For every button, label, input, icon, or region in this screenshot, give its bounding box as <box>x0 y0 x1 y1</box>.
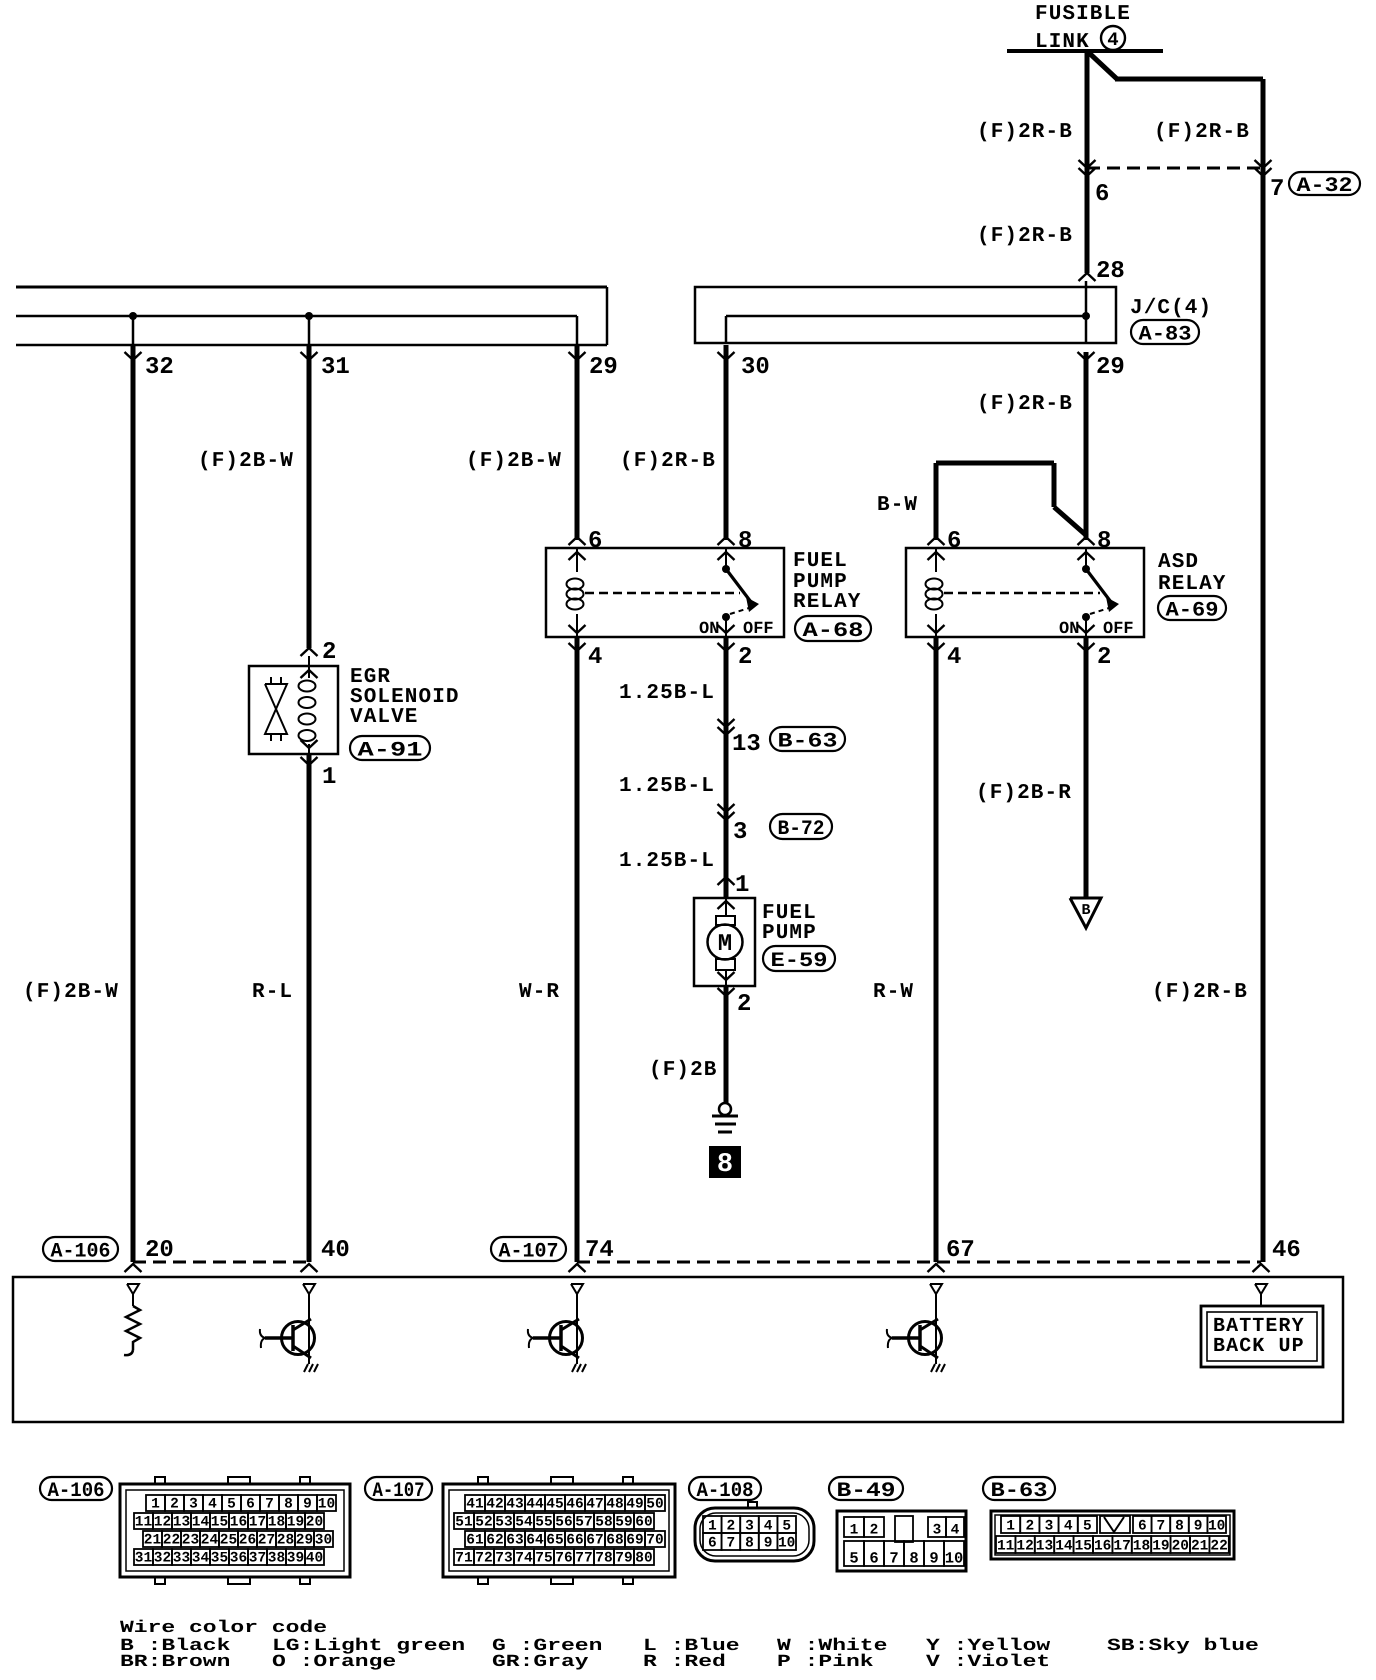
svg-text:53: 53 <box>495 1515 512 1531</box>
svg-text:4: 4 <box>208 1497 217 1513</box>
svg-text:59: 59 <box>615 1515 632 1531</box>
svg-text:P :Pink: P :Pink <box>777 1653 874 1672</box>
svg-text:80: 80 <box>635 1551 652 1567</box>
svg-text:42: 42 <box>486 1497 503 1513</box>
svg-text:3: 3 <box>745 1519 754 1535</box>
svg-text:31: 31 <box>321 354 350 381</box>
svg-text:(F)2B-W: (F)2B-W <box>198 450 294 473</box>
svg-text:61: 61 <box>466 1533 484 1549</box>
svg-text:E-59: E-59 <box>771 950 828 973</box>
svg-text:15: 15 <box>211 1515 228 1531</box>
svg-text:6: 6 <box>869 1550 878 1568</box>
svg-text:A-69: A-69 <box>1166 599 1219 622</box>
svg-text:25: 25 <box>220 1533 237 1549</box>
svg-text:58: 58 <box>595 1515 612 1531</box>
svg-text:64: 64 <box>526 1533 544 1549</box>
svg-text:2: 2 <box>737 991 751 1018</box>
svg-text:10: 10 <box>318 1497 335 1513</box>
svg-text:35: 35 <box>211 1551 228 1567</box>
svg-text:7: 7 <box>889 1550 898 1568</box>
svg-text:31: 31 <box>135 1551 153 1567</box>
svg-text:5: 5 <box>1083 1519 1092 1535</box>
svg-text:14: 14 <box>1055 1539 1073 1555</box>
svg-text:74: 74 <box>585 1237 614 1264</box>
svg-text:1: 1 <box>151 1497 160 1513</box>
svg-text:5: 5 <box>849 1550 858 1568</box>
svg-text:6: 6 <box>1095 181 1109 208</box>
svg-text:54: 54 <box>515 1515 533 1531</box>
svg-text:R-W: R-W <box>873 981 914 1004</box>
svg-text:7: 7 <box>265 1497 274 1513</box>
svg-text:4: 4 <box>764 1519 773 1535</box>
svg-text:Wire color code: Wire color code <box>120 1619 327 1638</box>
svg-text:A-107: A-107 <box>499 1240 559 1263</box>
svg-text:72: 72 <box>475 1551 492 1567</box>
svg-text:A-106: A-106 <box>51 1240 111 1263</box>
svg-text:(F)2B-W: (F)2B-W <box>23 981 119 1004</box>
svg-text:70: 70 <box>646 1533 663 1549</box>
svg-text:8: 8 <box>1097 528 1111 555</box>
svg-text:B-72: B-72 <box>778 818 825 841</box>
svg-text:38: 38 <box>268 1551 285 1567</box>
svg-text:14: 14 <box>192 1515 210 1531</box>
svg-text:19: 19 <box>287 1515 304 1531</box>
svg-text:ON: ON <box>699 620 719 639</box>
svg-text:56: 56 <box>555 1515 572 1531</box>
svg-text:34: 34 <box>192 1551 210 1567</box>
svg-text:12: 12 <box>154 1515 171 1531</box>
svg-text:4: 4 <box>947 644 961 671</box>
svg-text:40: 40 <box>306 1551 323 1567</box>
svg-text:SB:Sky blue: SB:Sky blue <box>1107 1637 1259 1656</box>
svg-text:A-68: A-68 <box>803 620 864 643</box>
svg-text:78: 78 <box>595 1551 612 1567</box>
svg-text:16: 16 <box>230 1515 247 1531</box>
svg-text:2: 2 <box>1097 644 1111 671</box>
svg-text:55: 55 <box>535 1515 552 1531</box>
svg-text:(F)2R-B: (F)2R-B <box>977 225 1073 248</box>
svg-text:(F)2R-B: (F)2R-B <box>977 121 1073 144</box>
svg-text:18: 18 <box>268 1515 285 1531</box>
svg-text:46: 46 <box>566 1497 583 1513</box>
svg-text:A-91: A-91 <box>358 739 423 762</box>
svg-text:10: 10 <box>1208 1519 1225 1535</box>
svg-text:65: 65 <box>546 1533 563 1549</box>
svg-text:12: 12 <box>1016 1539 1033 1555</box>
svg-text:(F)2B-W: (F)2B-W <box>466 450 562 473</box>
svg-text:29: 29 <box>1096 354 1125 381</box>
svg-text:69: 69 <box>626 1533 643 1549</box>
svg-text:ASD: ASD <box>1158 551 1199 574</box>
svg-text:R :Red: R :Red <box>643 1653 726 1672</box>
svg-text:4: 4 <box>588 644 602 671</box>
svg-text:B-63: B-63 <box>991 1480 1048 1503</box>
svg-text:W-R: W-R <box>519 981 560 1004</box>
svg-text:B-49: B-49 <box>837 1480 896 1503</box>
svg-text:20: 20 <box>145 1237 174 1264</box>
svg-text:FUEL: FUEL <box>793 550 848 573</box>
svg-text:40: 40 <box>321 1237 350 1264</box>
svg-text:18: 18 <box>1133 1539 1150 1555</box>
svg-text:29: 29 <box>589 354 618 381</box>
svg-text:11: 11 <box>135 1515 153 1531</box>
svg-text:(F)2R-B: (F)2R-B <box>620 450 716 473</box>
svg-text:OFF: OFF <box>743 620 774 639</box>
svg-text:43: 43 <box>506 1497 523 1513</box>
svg-text:19: 19 <box>1152 1539 1169 1555</box>
svg-text:1.25B-L: 1.25B-L <box>619 850 715 873</box>
svg-text:8: 8 <box>738 528 752 555</box>
svg-text:71: 71 <box>455 1551 473 1567</box>
svg-text:22: 22 <box>1210 1539 1227 1555</box>
svg-text:A-32: A-32 <box>1297 175 1353 198</box>
svg-text:33: 33 <box>173 1551 190 1567</box>
svg-text:8: 8 <box>717 1150 733 1180</box>
svg-text:M: M <box>718 931 732 958</box>
svg-text:OFF: OFF <box>1103 620 1134 639</box>
svg-text:46: 46 <box>1272 1237 1301 1264</box>
svg-text:37: 37 <box>249 1551 266 1567</box>
svg-text:44: 44 <box>526 1497 544 1513</box>
svg-text:A-107: A-107 <box>373 1480 425 1503</box>
svg-text:GR:Gray: GR:Gray <box>492 1653 589 1672</box>
svg-text:21: 21 <box>1191 1539 1209 1555</box>
svg-text:15: 15 <box>1075 1539 1092 1555</box>
svg-text:51: 51 <box>455 1515 473 1531</box>
svg-text:23: 23 <box>182 1533 199 1549</box>
svg-text:6: 6 <box>947 528 961 555</box>
svg-text:(F)2B: (F)2B <box>649 1059 718 1082</box>
svg-text:75: 75 <box>535 1551 552 1567</box>
svg-text:(F)2R-B: (F)2R-B <box>1152 981 1248 1004</box>
svg-text:8: 8 <box>284 1497 293 1513</box>
svg-text:8: 8 <box>909 1550 918 1568</box>
svg-text:49: 49 <box>626 1497 643 1513</box>
svg-text:77: 77 <box>575 1551 592 1567</box>
svg-text:PUMP: PUMP <box>762 922 817 945</box>
svg-text:8: 8 <box>1175 1519 1184 1535</box>
svg-text:22: 22 <box>163 1533 180 1549</box>
svg-text:62: 62 <box>486 1533 503 1549</box>
svg-text:27: 27 <box>258 1533 275 1549</box>
svg-text:73: 73 <box>495 1551 512 1567</box>
svg-text:5: 5 <box>782 1519 791 1535</box>
svg-text:26: 26 <box>239 1533 256 1549</box>
svg-text:9: 9 <box>1194 1519 1203 1535</box>
svg-text:5: 5 <box>227 1497 236 1513</box>
svg-text:68: 68 <box>606 1533 623 1549</box>
svg-text:36: 36 <box>230 1551 247 1567</box>
svg-text:BR:Brown: BR:Brown <box>120 1653 230 1672</box>
svg-text:1: 1 <box>1006 1519 1015 1535</box>
svg-text:24: 24 <box>201 1533 219 1549</box>
svg-text:VALVE: VALVE <box>350 706 419 729</box>
svg-text:76: 76 <box>555 1551 572 1567</box>
svg-text:2: 2 <box>1025 1519 1034 1535</box>
svg-text:30: 30 <box>315 1533 332 1549</box>
svg-text:8: 8 <box>745 1536 754 1552</box>
svg-text:J/C(4): J/C(4) <box>1130 297 1212 320</box>
svg-text:9: 9 <box>764 1536 773 1552</box>
svg-text:FUSIBLE: FUSIBLE <box>1035 3 1131 26</box>
svg-text:9: 9 <box>303 1497 312 1513</box>
svg-text:21: 21 <box>144 1533 162 1549</box>
svg-text:2: 2 <box>870 1523 879 1539</box>
svg-text:2: 2 <box>322 639 336 666</box>
svg-text:R-L: R-L <box>252 981 293 1004</box>
svg-text:17: 17 <box>1113 1539 1130 1555</box>
svg-text:B-63: B-63 <box>778 730 838 753</box>
svg-text:67: 67 <box>586 1533 603 1549</box>
svg-text:A-83: A-83 <box>1139 323 1192 346</box>
svg-text:7: 7 <box>1157 1519 1166 1535</box>
svg-text:39: 39 <box>287 1551 304 1567</box>
svg-text:11: 11 <box>997 1539 1015 1555</box>
svg-text:13: 13 <box>173 1515 190 1531</box>
svg-text:4: 4 <box>951 1523 960 1539</box>
svg-text:7: 7 <box>1270 176 1284 203</box>
svg-text:(F)2R-B: (F)2R-B <box>1154 121 1250 144</box>
svg-text:2: 2 <box>727 1519 736 1535</box>
svg-text:45: 45 <box>546 1497 563 1513</box>
svg-text:1.25B-L: 1.25B-L <box>619 682 715 705</box>
svg-text:3: 3 <box>1045 1519 1054 1535</box>
svg-text:BACK UP: BACK UP <box>1213 1335 1305 1358</box>
svg-text:32: 32 <box>154 1551 171 1567</box>
svg-text:9: 9 <box>929 1550 938 1568</box>
svg-text:29: 29 <box>296 1533 313 1549</box>
svg-text:63: 63 <box>506 1533 523 1549</box>
svg-text:6: 6 <box>588 528 602 555</box>
svg-text:O :Orange: O :Orange <box>272 1653 396 1672</box>
svg-text:28: 28 <box>277 1533 294 1549</box>
svg-text:20: 20 <box>1172 1539 1189 1555</box>
svg-text:A-106: A-106 <box>48 1480 105 1503</box>
svg-text:52: 52 <box>475 1515 492 1531</box>
svg-text:6: 6 <box>246 1497 255 1513</box>
svg-text:1: 1 <box>322 764 336 791</box>
svg-text:4: 4 <box>1107 29 1118 51</box>
svg-text:60: 60 <box>635 1515 652 1531</box>
svg-text:41: 41 <box>466 1497 484 1513</box>
svg-text:V :Violet: V :Violet <box>926 1653 1050 1672</box>
svg-text:10: 10 <box>945 1550 964 1568</box>
svg-text:A-108: A-108 <box>697 1480 754 1503</box>
svg-text:1.25B-L: 1.25B-L <box>619 775 715 798</box>
svg-text:3: 3 <box>189 1497 198 1513</box>
svg-text:79: 79 <box>615 1551 632 1567</box>
svg-text:30: 30 <box>741 354 770 381</box>
svg-text:B: B <box>1081 902 1090 919</box>
svg-text:16: 16 <box>1094 1539 1111 1555</box>
svg-text:4: 4 <box>1064 1519 1073 1535</box>
svg-text:47: 47 <box>586 1497 603 1513</box>
svg-text:3: 3 <box>733 819 747 846</box>
svg-text:(F)2R-B: (F)2R-B <box>977 393 1073 416</box>
svg-text:RELAY: RELAY <box>793 591 862 614</box>
svg-text:RELAY: RELAY <box>1158 573 1227 596</box>
svg-text:2: 2 <box>170 1497 179 1513</box>
svg-text:6: 6 <box>708 1536 717 1552</box>
svg-text:17: 17 <box>249 1515 266 1531</box>
svg-text:6: 6 <box>1138 1519 1147 1535</box>
svg-text:B-W: B-W <box>877 494 918 517</box>
svg-text:66: 66 <box>566 1533 583 1549</box>
svg-text:28: 28 <box>1096 258 1125 285</box>
svg-text:67: 67 <box>946 1237 975 1264</box>
svg-text:2: 2 <box>738 644 752 671</box>
svg-text:1: 1 <box>850 1523 859 1539</box>
svg-text:50: 50 <box>646 1497 663 1513</box>
svg-text:57: 57 <box>575 1515 592 1531</box>
svg-text:20: 20 <box>306 1515 323 1531</box>
svg-text:13: 13 <box>1036 1539 1053 1555</box>
svg-text:13: 13 <box>732 731 761 758</box>
svg-text:1: 1 <box>708 1519 717 1535</box>
svg-text:74: 74 <box>515 1551 533 1567</box>
svg-text:3: 3 <box>933 1523 942 1539</box>
svg-text:(F)2B-R: (F)2B-R <box>976 782 1072 805</box>
svg-text:48: 48 <box>606 1497 623 1513</box>
svg-text:32: 32 <box>145 354 174 381</box>
svg-text:10: 10 <box>778 1536 795 1552</box>
svg-text:7: 7 <box>727 1536 736 1552</box>
svg-text:ON: ON <box>1059 620 1079 639</box>
svg-text:1: 1 <box>735 872 749 899</box>
